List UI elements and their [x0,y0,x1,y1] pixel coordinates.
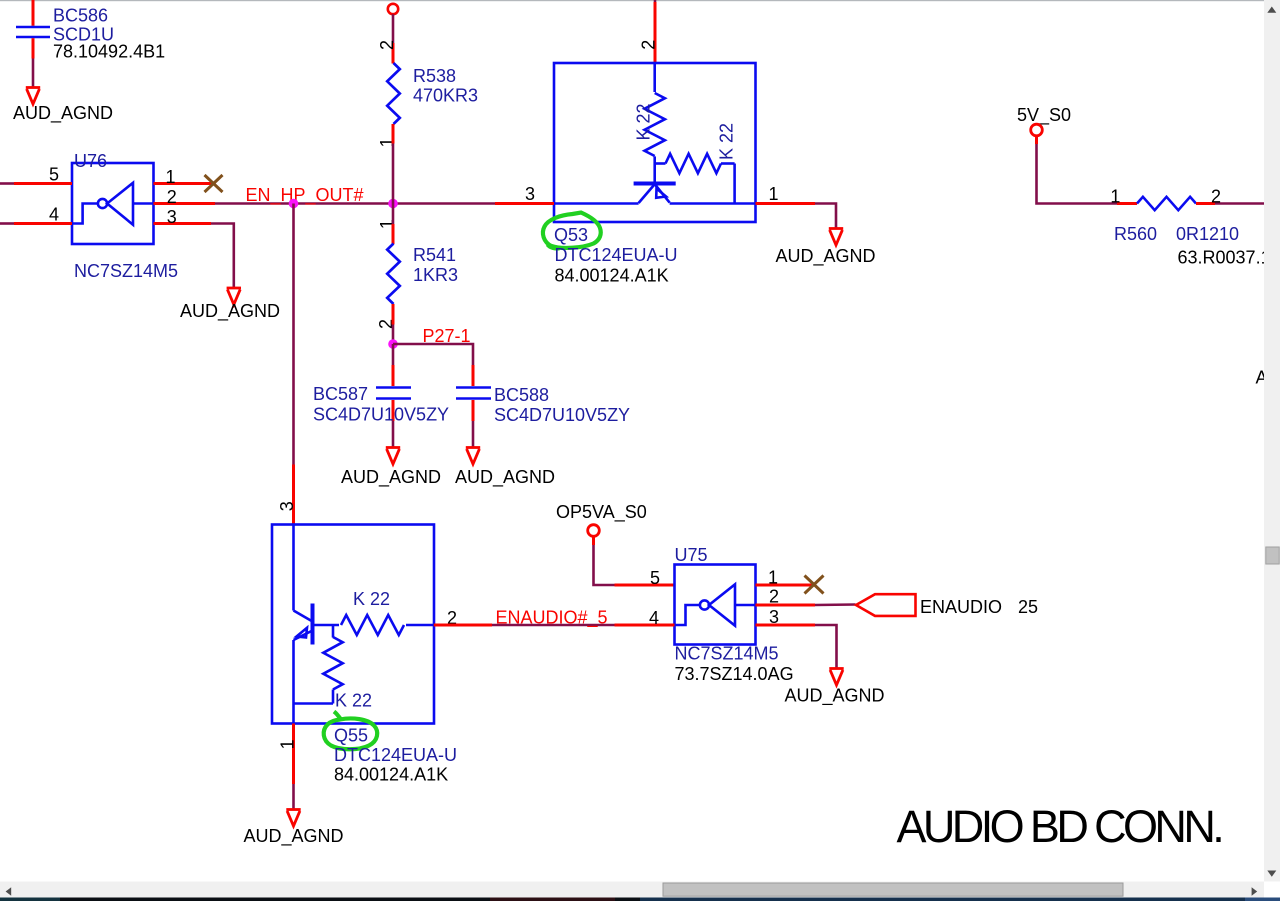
svg-text:1KR3: 1KR3 [413,265,458,285]
svg-text:2: 2 [639,40,659,50]
svg-text:Q53: Q53 [554,225,588,245]
wire - BC586 top lead [32,0,35,26]
pin 5 stub U76 [14,182,72,185]
pin 3 stub Q53 [495,202,554,205]
capacitor BC587 [376,388,411,399]
svg-text:K 22: K 22 [633,103,653,140]
wire - U75 pin2 to port [815,603,856,606]
svg-text:4: 4 [649,608,659,628]
wire - Q53 pin1 to ground [815,204,836,230]
svg-text:U75: U75 [675,545,708,565]
ground - AUD_AGND under BC588 [466,448,480,465]
wire - R541 top [392,204,395,225]
svg-text:K 22: K 22 [335,691,372,711]
svg-text:3: 3 [277,501,297,511]
svg-text:470KR3: 470KR3 [413,86,478,106]
ground - AUD_AGND under U76 [227,288,241,305]
svg-text:OP5VA_S0: OP5VA_S0 [556,502,647,523]
pin 2 stub Q55 [434,624,492,627]
svg-text:AUD_AGND: AUD_AGND [180,301,280,322]
svg-text:AUD_AGND: AUD_AGND [776,246,876,267]
svg-text:U76: U76 [74,151,107,171]
wire - net EN_HP_OUT# [215,202,495,205]
bottom taskbar sliver [0,898,1280,901]
wire - OP5VA_S0 stub [592,537,595,546]
wire - R560 pin2 net [1215,202,1266,205]
svg-text:K 22: K 22 [717,123,737,160]
horizontal scrollbar right arrow [1252,887,1258,895]
svg-text:AUD_AGND: AUD_AGND [455,467,555,488]
horizontal scrollbar track [0,882,1264,898]
svg-text:R541: R541 [413,245,456,265]
node - 5V terminal circle above R538 [388,4,398,14]
pin 1 stub R560 [1117,202,1137,205]
pin 2 stub R560 [1196,202,1215,205]
node - OP5VA_S0 terminal circle [588,525,600,537]
resistor R541 [387,244,400,305]
svg-text:BC588: BC588 [494,385,549,405]
pin 4 stub U76 [14,222,72,225]
svg-text:78.10492.4B1: 78.10492.4B1 [53,42,165,62]
svg-text:3: 3 [525,184,535,204]
svg-text:AUD_AGND: AUD_AGND [244,826,344,847]
wire - BC587 branch [392,344,395,365]
svg-text:R538: R538 [413,66,456,86]
svg-text:EN_HP_OUT#: EN_HP_OUT# [246,185,364,206]
svg-text:1: 1 [166,167,176,187]
wire - net P27-1 branch [393,344,473,365]
highlight circle around Q55 [324,712,378,750]
wire - U76 pin5 net [0,182,14,185]
svg-text:ENAUDIO: ENAUDIO [920,597,1002,617]
svg-text:84.00124.A1K: 84.00124.A1K [555,266,669,286]
svg-text:2: 2 [167,187,177,207]
wire - 5V_S0 to R560 [1037,144,1118,204]
svg-text:NC7SZ14M5: NC7SZ14M5 [74,261,178,281]
svg-text:SC4D7U10V5ZY: SC4D7U10V5ZY [313,405,449,425]
pin 3 stub U76 [154,222,212,225]
svg-text:2: 2 [1211,187,1221,207]
wire - U76 pin4 net [0,222,14,225]
port ENAUDIO symbol [856,594,916,616]
wire - vertical net to Q55 [292,204,295,465]
svg-text:5V_S0: 5V_S0 [1017,105,1071,126]
ground - AUD_AGND under U75 [829,669,843,686]
vertical scrollbar up arrow [1267,7,1276,13]
pin stub BC588 top [472,365,475,386]
ground - AUD_AGND under BC586 [26,88,40,105]
svg-text:SC4D7U10V5ZY: SC4D7U10V5ZY [494,405,630,425]
svg-text:4: 4 [49,205,59,225]
svg-text:1: 1 [769,184,779,204]
junction dot B [388,199,398,209]
wire - BC586 to ground [32,59,35,89]
svg-text:AUD_AGND: AUD_AGND [13,103,113,124]
wire - BC587 bottom [392,400,395,421]
ground - AUD_AGND right of Q53 [829,229,843,246]
window top edge hairline [0,0,1280,1]
op-amp U76 body [72,163,154,244]
node - 5V_S0 terminal circle [1031,124,1043,136]
no-connect X on U75 pin1 [805,576,824,594]
no-connect X on U76 pin1 [205,175,223,192]
svg-text:1: 1 [1110,187,1120,207]
op-amp U75 body [675,565,756,645]
capacitor BC588 [456,388,491,399]
pin stub BC587 top [392,365,395,386]
svg-text:K 22: K 22 [353,589,390,609]
svg-text:1: 1 [768,568,778,588]
svg-text:1: 1 [278,739,298,749]
wire - BC586 bottom lead [32,38,35,58]
wire - R538 bottom [392,124,395,144]
svg-text:84.00124.A1K: 84.00124.A1K [334,765,448,785]
wire - R538 top [392,14,395,43]
resistor R560 [1137,197,1196,210]
svg-text:ENAUDIO#_5: ENAUDIO#_5 [496,608,608,629]
horizontal scrollbar thumb [663,883,1123,896]
svg-text:AUD_AGND: AUD_AGND [341,467,441,488]
vertical scrollbar track [1264,0,1280,882]
wire - R541 bottom [392,304,395,325]
pin 1 stub Q55 (bottom) [292,724,295,785]
wire - Q55 pin1 to ground [292,784,295,810]
wire - BC588 bottom [472,400,475,421]
capacitor BC586 [16,27,50,37]
highlight circle around Q53 [543,213,601,249]
pin 2 stub U76 [154,202,216,205]
pin 1 stub Q53 [756,202,816,205]
wire - OP5VA_S0 to U75 pin5 [594,545,615,585]
svg-text:25: 25 [1018,597,1038,617]
transistor Q55 body [272,525,434,724]
svg-text:AUD_AGND: AUD_AGND [785,686,885,707]
vertical scrollbar thumb [1266,547,1279,564]
wire - 5V_S0 stub [1035,136,1038,145]
pin 3 stub U75 [756,624,816,627]
svg-text:3: 3 [769,607,779,627]
svg-text:DTC124EUA-U: DTC124EUA-U [555,245,678,265]
svg-text:2: 2 [769,587,779,607]
svg-text:73.7SZ14.0AG: 73.7SZ14.0AG [675,664,794,684]
svg-text:0R1210: 0R1210 [1176,224,1239,244]
wire - net ENAUDIO#_5 [492,624,615,627]
svg-text:5: 5 [49,165,59,185]
pin 2 stub U75 [756,604,816,607]
wire - U75 pin3 to ground [815,625,837,669]
vertical scrollbar down arrow [1267,871,1276,877]
junction dot A [289,199,299,209]
junction dot P27-1 [388,339,398,349]
resistor R538 [387,63,400,124]
pin 5 stub U75 [615,584,675,587]
ground - AUD_AGND under Q55 [286,810,300,827]
svg-text:BC586: BC586 [53,6,108,26]
svg-text:2: 2 [377,40,397,50]
wire - U76 pin3 to ground [211,224,234,289]
horizontal scrollbar left arrow [6,887,12,895]
svg-text:R560: R560 [1114,224,1157,244]
transistor Q53 body [554,63,756,222]
svg-text:5: 5 [650,568,660,588]
pin 3 stub Q55 (top) [292,465,295,525]
svg-text:DTC124EUA-U: DTC124EUA-U [334,745,457,765]
pin 4 stub U75 [615,624,675,627]
ground - AUD_AGND under BC587 [386,448,400,465]
svg-text:AUDIO BD CONN.: AUDIO BD CONN. [897,801,1222,852]
pin 2 stub Q53 (top) [654,0,657,3]
pin 1 stub U75 [756,584,815,587]
svg-text:Q55: Q55 [334,726,368,746]
svg-text:BC587: BC587 [313,384,368,404]
svg-text:NC7SZ14M5: NC7SZ14M5 [675,644,779,664]
pin 1 stub U76 [154,182,214,185]
svg-text:3: 3 [167,207,177,227]
